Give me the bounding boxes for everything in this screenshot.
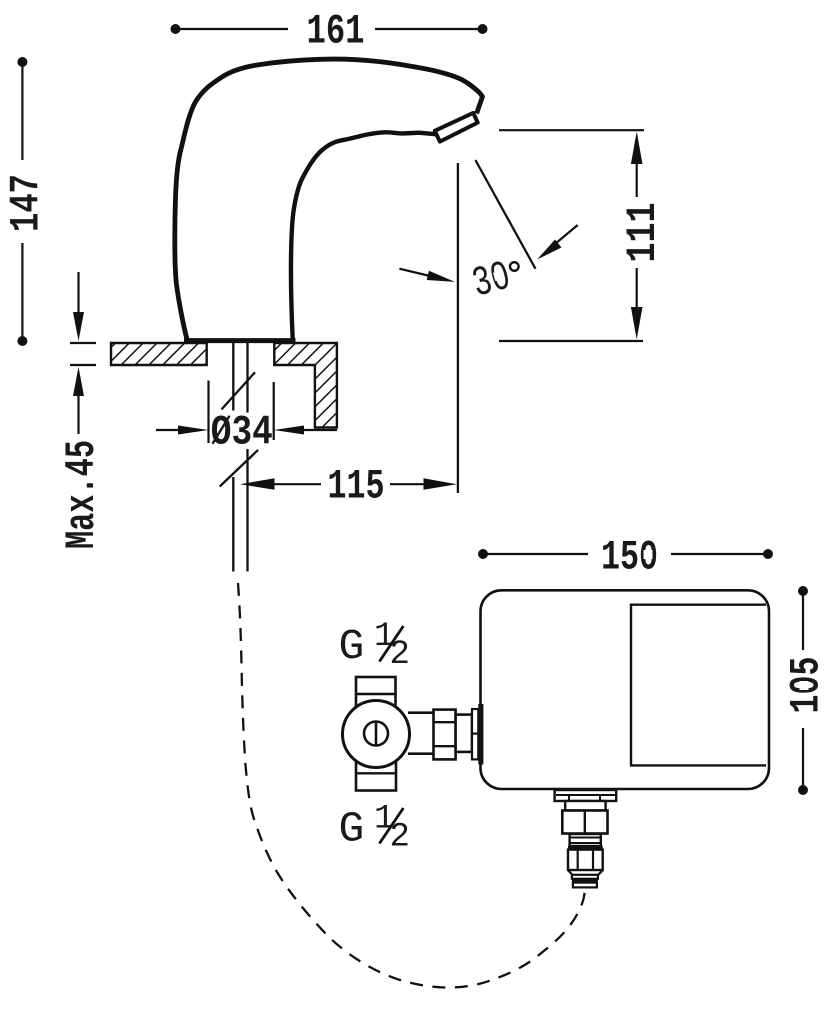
stream leader arrow	[399, 269, 455, 282]
valve body	[343, 701, 410, 768]
connector chamfer	[569, 871, 603, 875]
connector tip	[573, 883, 597, 888]
flexible hose dashed	[238, 583, 585, 988]
svg-text:2: 2	[390, 819, 410, 857]
svg-text:161: 161	[307, 8, 365, 56]
pipe break slash 2	[220, 450, 258, 487]
dimension 105	[798, 586, 808, 795]
counter right hatched L section	[274, 343, 337, 428]
outlet ring stack	[570, 834, 601, 846]
label G 1/2 top	[339, 618, 410, 674]
outlet hex nut	[562, 811, 607, 834]
connector neck	[572, 875, 598, 879]
svg-text:Ø34: Ø34	[211, 409, 273, 457]
sensor window rect	[631, 605, 766, 766]
dimension 161 top	[171, 24, 488, 34]
supply pipe lines	[233, 343, 247, 572]
svg-text:2: 2	[390, 636, 410, 674]
valve to box pipe	[408, 713, 434, 754]
svg-text:G: G	[339, 805, 365, 854]
dimension Max.45	[70, 272, 96, 434]
dimension 150	[478, 549, 773, 559]
coupling mid piece	[456, 715, 472, 752]
svg-text:G: G	[339, 622, 365, 671]
dimension 147 left	[17, 57, 27, 346]
valve bottom port divider	[356, 772, 396, 774]
water stream vertical line	[457, 163, 459, 493]
valve top port divider	[356, 693, 396, 695]
valve bottom port	[356, 758, 396, 791]
coupling nut	[434, 710, 456, 760]
flange wall bar	[478, 704, 483, 765]
faucet base line	[184, 338, 296, 343]
connector dark ring	[572, 879, 598, 883]
outlet dark band	[568, 846, 603, 850]
control box	[481, 590, 770, 789]
counter left hatched section	[111, 343, 207, 365]
30 degree leader arrow	[537, 225, 578, 260]
dimension 111	[499, 130, 644, 341]
coupling flange	[472, 709, 478, 759]
svg-text:147: 147	[3, 174, 51, 232]
label G 1/2 bottom	[339, 801, 410, 857]
svg-text:115: 115	[328, 462, 385, 510]
dimension 115	[240, 478, 457, 490]
svg-text:Max.45: Max.45	[58, 440, 106, 549]
outlet collar	[565, 801, 605, 811]
dimension O34	[156, 381, 337, 444]
outlet flange under box	[555, 790, 617, 801]
faucet outer profile	[175, 59, 483, 341]
faucet inner profile	[291, 132, 437, 341]
30 degree slant line	[475, 160, 535, 269]
valve top port	[356, 677, 396, 707]
svg-text:111: 111	[619, 203, 667, 263]
valve screw	[364, 722, 388, 747]
quick connector body	[568, 850, 603, 870]
faucet aerator outlet	[435, 113, 478, 142]
pipe break slash 1	[222, 372, 256, 409]
